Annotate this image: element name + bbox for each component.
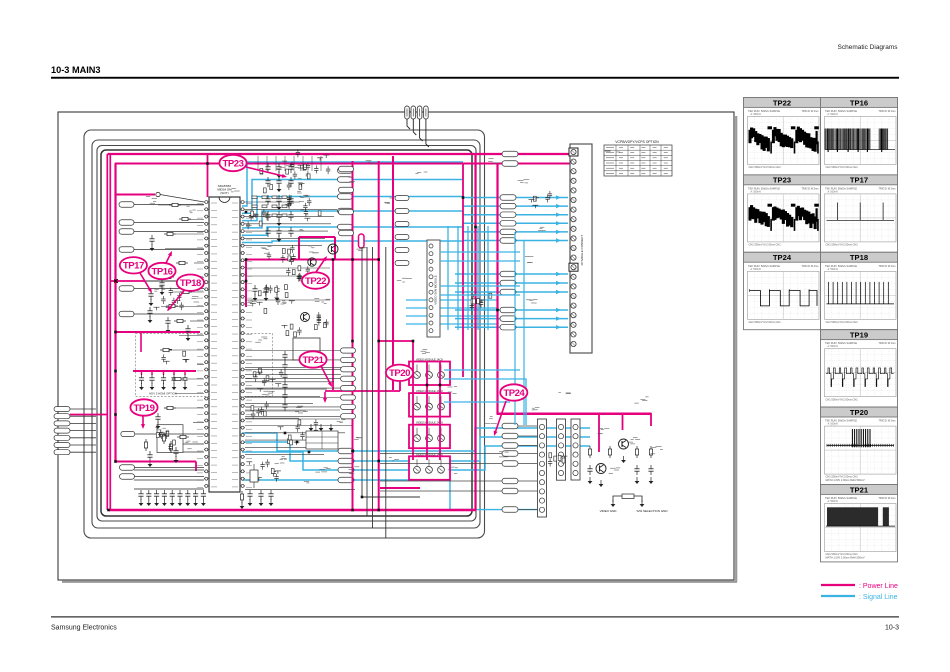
signal pill xyxy=(500,307,516,313)
ground xyxy=(170,499,175,506)
signal wire weave extra xyxy=(440,294,520,296)
input pill P1 xyxy=(54,407,70,412)
power stub to outside pill xyxy=(70,414,108,416)
power bus Q-row xyxy=(497,413,652,416)
input label pill 2 xyxy=(119,220,134,226)
ground xyxy=(162,499,167,506)
signal wire RGB 4 xyxy=(463,222,568,224)
power bus vertical 8V xyxy=(378,161,380,510)
pill YP3 xyxy=(341,367,356,372)
wire xyxy=(245,299,330,301)
callout arrow TP22 xyxy=(316,256,327,272)
ground xyxy=(635,477,640,484)
capacitor C260 xyxy=(138,490,143,500)
IC U201 pins left xyxy=(204,201,209,488)
wire L202 run xyxy=(245,489,355,491)
wire from fuse 2 xyxy=(413,119,416,135)
capacitor C2339 xyxy=(276,211,281,221)
signal pill xyxy=(500,324,516,330)
signal pill xyxy=(395,235,409,240)
IC U201 pins right xyxy=(240,201,245,488)
input label pill 3 xyxy=(119,229,134,235)
signal pill Y5 xyxy=(338,224,353,230)
wire drops TP23 xyxy=(258,156,321,171)
power branch TP22 top xyxy=(299,236,335,238)
power vertical x393 xyxy=(392,156,394,390)
capacitor C2331 xyxy=(288,211,293,221)
footer rule xyxy=(51,616,899,617)
capacitor C330 xyxy=(139,374,144,384)
wire mute xyxy=(135,433,204,435)
connector CN853 xyxy=(571,419,580,480)
wire loop network TP19 xyxy=(157,425,183,453)
signal wire luma 1 xyxy=(242,162,463,206)
capacitor C392 xyxy=(147,451,152,461)
svg-text:TP18: TP18 xyxy=(180,278,202,289)
signal wire jack out 1 xyxy=(444,369,520,371)
test point TP20 xyxy=(386,365,413,381)
wire xyxy=(70,451,96,453)
capacitor C2348 xyxy=(265,227,270,237)
wire vertical C xyxy=(372,247,374,528)
svg-text:VIDEO MODULE JACK: VIDEO MODULE JACK xyxy=(416,358,444,362)
wire vertical D xyxy=(385,247,387,538)
CRT signal pill xyxy=(502,451,518,457)
fuse pill 2 xyxy=(411,106,416,119)
capacitor C25x xyxy=(263,285,268,295)
wire xyxy=(246,275,300,277)
signal wire xyxy=(455,309,568,311)
input label pill 5 xyxy=(119,286,134,292)
ground xyxy=(269,499,274,506)
callout arrow TP23 xyxy=(246,167,287,178)
wire node 281 xyxy=(116,280,204,282)
ground xyxy=(277,185,282,192)
power stub Q2 xyxy=(622,414,624,430)
signal wire vertical xyxy=(447,226,449,330)
ground xyxy=(649,477,654,484)
ground xyxy=(640,500,645,507)
RC cluster right top xyxy=(529,191,553,208)
ground xyxy=(178,499,183,506)
ground xyxy=(599,480,604,487)
transistor Q204 xyxy=(308,258,316,266)
input pill P6 xyxy=(54,443,70,448)
signal wire RGB 1 xyxy=(463,197,568,199)
transistor Q851 xyxy=(619,439,629,449)
svg-text:TRIG’D M 2ms: TRIG’D M 2ms xyxy=(878,264,896,268)
RC cluster weave xyxy=(470,293,492,310)
svg-text:TP21: TP21 xyxy=(303,355,325,366)
wire xyxy=(183,443,204,445)
RC cluster x2 xyxy=(286,266,310,282)
power pill xyxy=(502,161,518,167)
resistor grid R241-R249 xyxy=(252,196,287,217)
resistor cluster R3xx xyxy=(154,288,184,311)
capacitor C2311 xyxy=(288,177,293,187)
ferrite bead L301 xyxy=(156,192,160,196)
ground xyxy=(149,299,154,306)
svg-text:CH1 500mV M 2.00ms CH1: CH1 500mV M 2.00ms CH1 xyxy=(826,320,859,324)
wire xyxy=(134,313,204,315)
callout arrow TP19 xyxy=(141,416,145,429)
capacitor C333 xyxy=(171,374,176,384)
signal wire vertical xyxy=(487,226,489,330)
power drop TP22 b xyxy=(334,237,336,260)
inductor L852 network xyxy=(613,496,642,502)
input pill P5 xyxy=(54,435,70,440)
wire YP xyxy=(245,359,340,361)
wire xyxy=(70,437,96,439)
resistor R308 xyxy=(160,348,172,351)
svg-text:MATH 1.00V 2.00ms RefA 500: MATH 1.00V 2.00ms RefA 500mV xyxy=(826,478,865,482)
junction dots xyxy=(107,162,499,511)
signal pill xyxy=(339,230,354,236)
wire xyxy=(135,467,205,469)
waveform cell TP18 xyxy=(821,252,898,329)
capacitor C24x xyxy=(282,351,287,361)
wire from fuse 1 xyxy=(407,119,410,129)
svg-text:TRIG’D M 2ms: TRIG’D M 2ms xyxy=(878,496,896,500)
RC cluster mid xyxy=(253,368,283,392)
cap row top xyxy=(296,149,331,174)
wire xyxy=(70,444,96,446)
resistor R303 xyxy=(176,261,188,264)
signal wire SND OUT xyxy=(242,480,540,510)
signal wire RGB 3 xyxy=(463,214,568,216)
dashed box VDP/VDPE OPTION xyxy=(136,334,273,397)
ground xyxy=(156,422,161,429)
legend power line xyxy=(821,584,855,586)
svg-text:TRIG’D M 2ms: TRIG’D M 2ms xyxy=(878,341,896,345)
signal pill Y2 xyxy=(338,177,353,183)
ground xyxy=(277,171,282,178)
wire from fuse 3 xyxy=(420,119,423,141)
power bus left vertical inner xyxy=(114,164,116,462)
wire xyxy=(134,288,204,290)
connector CN852 xyxy=(557,419,566,480)
waveform cell TP19 xyxy=(821,330,898,407)
capacitor C332 xyxy=(161,374,166,384)
signal pill R4 xyxy=(500,221,516,227)
capacitor C25x xyxy=(274,285,279,295)
resistor R3011 xyxy=(177,435,189,438)
IC right pin wires mid xyxy=(245,360,352,455)
ground xyxy=(166,326,171,333)
ground xyxy=(146,499,151,506)
ground xyxy=(172,383,177,390)
output pill O2 xyxy=(338,458,354,464)
wire xyxy=(70,408,96,410)
power bus top 2 xyxy=(115,163,571,165)
label xyxy=(301,210,309,215)
label text xyxy=(275,161,292,169)
CRT signal pill xyxy=(502,423,518,429)
svg-text:10-3: 10-3 xyxy=(885,625,899,632)
svg-text:TP19: TP19 xyxy=(850,331,868,340)
output pill O4 xyxy=(338,477,354,483)
waveform cell TP22 xyxy=(744,98,821,175)
wire YP xyxy=(245,406,340,408)
capacitor C21x xyxy=(268,490,273,500)
signal wire luma 2 xyxy=(242,180,463,214)
signal wire RGB 2 xyxy=(463,205,568,207)
capacitor C2328 xyxy=(265,195,270,205)
svg-text:CH1 500mV M 2.00ms CH1: CH1 500mV M 2.00ms CH1 xyxy=(826,243,859,247)
capacitor xyxy=(155,413,160,423)
wire from fuse 4 xyxy=(426,119,429,147)
label text xyxy=(356,247,366,250)
RC cluster x4 xyxy=(251,401,269,419)
signal wire B OUT xyxy=(242,446,590,470)
signal pill xyxy=(339,187,354,193)
label text xyxy=(526,299,538,303)
CRT signal pill xyxy=(502,488,518,494)
input pill P7 xyxy=(54,450,70,455)
waveform cell TP24 xyxy=(744,252,821,329)
label text xyxy=(354,437,363,439)
IC pin labels xyxy=(197,204,252,488)
svg-text:HDV 5 HDMI OPTION: HDV 5 HDMI OPTION xyxy=(149,392,177,396)
signal wire xyxy=(455,318,568,320)
wire xyxy=(70,422,96,424)
AV jack module J3 xyxy=(409,421,450,449)
svg-text:Schematic Diagrams: Schematic Diagrams xyxy=(838,44,899,51)
capacitor C2349 xyxy=(276,227,281,237)
RC near Q852 xyxy=(548,453,568,467)
test point TP23 xyxy=(219,155,246,171)
signal wire weave xyxy=(406,299,498,301)
power wire jack feed xyxy=(379,340,412,342)
pill YP7 xyxy=(341,404,356,409)
svg-text:TRIG’D M 2ms: TRIG’D M 2ms xyxy=(801,109,819,113)
signal pill xyxy=(500,289,516,295)
capacitor C24x xyxy=(282,371,287,381)
power bus vertical 3.3V xyxy=(352,161,354,510)
power bus left vertical b xyxy=(109,154,111,510)
signal pill Y4 xyxy=(338,208,353,214)
label text xyxy=(525,256,534,262)
option table cell text xyxy=(606,148,668,174)
svg-text:TP17: TP17 xyxy=(850,176,868,185)
signal wire luma 3 xyxy=(242,197,463,221)
power drop option box xyxy=(140,332,142,352)
wire xyxy=(518,445,537,447)
label text xyxy=(532,408,540,410)
input label pill 4 xyxy=(119,247,134,253)
wire xyxy=(134,469,204,471)
wire to CN xyxy=(380,453,502,455)
svg-text:CH1 500mV M 2.00ms CH1: CH1 500mV M 2.00ms CH1 xyxy=(826,165,859,169)
svg-text:Samsung Electronics: Samsung Electronics xyxy=(51,625,117,632)
svg-text:TRIG’D M 2ms: TRIG’D M 2ms xyxy=(801,186,819,190)
signal pill R1 xyxy=(500,195,516,201)
signal wire xyxy=(455,282,568,284)
RC cluster x5 xyxy=(282,324,302,337)
signal wire xyxy=(455,291,568,293)
signal wire weave xyxy=(406,323,498,325)
label text xyxy=(485,417,497,424)
wire xyxy=(183,451,204,453)
capacitor C24x xyxy=(282,361,287,371)
power table block xyxy=(306,431,338,449)
wire YP xyxy=(245,368,340,370)
transistor Q203 xyxy=(301,313,310,322)
svg-text:TP24: TP24 xyxy=(773,253,792,262)
ground xyxy=(248,499,253,506)
signal wire weave xyxy=(406,307,498,309)
svg-text:VIDEO GND: VIDEO GND xyxy=(600,509,618,513)
resistor R304 xyxy=(162,275,174,278)
ground xyxy=(275,294,280,301)
capacitor C268 xyxy=(201,490,206,500)
AV pill 2 xyxy=(120,474,135,480)
svg-text:S/W SELECTION GND: S/W SELECTION GND xyxy=(636,509,668,513)
AV jack module J4 xyxy=(409,452,450,480)
wire xyxy=(70,415,96,417)
ground xyxy=(150,244,155,251)
label text xyxy=(448,387,458,394)
wire YP xyxy=(245,397,340,399)
capacitor C24x xyxy=(282,391,287,401)
svg-text:VCPB/VDPY/VCPS OPTION: VCPB/VDPY/VCPS OPTION xyxy=(615,140,659,144)
callout arrow TP24 xyxy=(494,401,506,436)
svg-text:TP20: TP20 xyxy=(850,408,868,417)
svg-text:(SOT): (SOT) xyxy=(220,191,228,195)
resistor bias xyxy=(635,446,638,458)
power drop at 196 xyxy=(195,462,197,472)
ground xyxy=(319,424,324,431)
label text xyxy=(295,406,308,413)
signal wire down 2 xyxy=(523,240,525,425)
ground xyxy=(240,502,245,509)
ground xyxy=(160,288,165,295)
output pill O3 xyxy=(338,467,354,473)
power branch drop xyxy=(245,259,247,307)
wire xyxy=(246,267,330,269)
ground xyxy=(150,383,155,390)
test point TP24 xyxy=(500,384,527,400)
ground xyxy=(148,460,153,467)
pill YP4 xyxy=(341,376,356,381)
label text xyxy=(315,468,330,472)
test point TP16 xyxy=(148,263,175,279)
IC U201 pin name ticks xyxy=(211,203,238,487)
signal pill xyxy=(395,261,409,266)
wire xyxy=(134,222,204,224)
wire loop frame 4 xyxy=(101,150,472,516)
label text xyxy=(262,391,275,395)
wire xyxy=(245,409,340,411)
wire xyxy=(518,463,537,465)
signal arrows xyxy=(556,195,561,329)
schematic outer border xyxy=(58,112,734,580)
resistor R302 xyxy=(164,232,176,235)
input pill P4 xyxy=(54,428,70,433)
power bus top B+ xyxy=(108,153,572,155)
power stub Q1 xyxy=(598,414,600,452)
power jumper pill xyxy=(359,234,365,248)
label text xyxy=(275,456,287,463)
signal pill xyxy=(339,166,354,172)
label L202 xyxy=(304,482,310,483)
signal wire R OUT xyxy=(242,428,590,451)
label text xyxy=(538,227,546,230)
label text xyxy=(609,468,621,474)
capacitor bank C201-C214 xyxy=(260,162,310,193)
CRT signal pill xyxy=(502,443,518,449)
signal pill xyxy=(395,222,409,227)
RC cluster left xyxy=(156,430,175,452)
wire loop frame 1 xyxy=(84,130,485,538)
label text xyxy=(303,353,311,357)
svg-text:TRIG’D M 2ms: TRIG’D M 2ms xyxy=(878,419,896,423)
waveform cell TP23 xyxy=(744,175,821,252)
test point TP18 xyxy=(177,275,204,291)
ground xyxy=(139,383,144,390)
fuse pill 4 xyxy=(424,106,429,119)
label text xyxy=(384,198,393,203)
fuse pill 3 xyxy=(417,106,422,119)
ground xyxy=(277,203,282,210)
power pill xyxy=(502,151,518,157)
signal wire vertical xyxy=(467,226,469,330)
capacitor C264 xyxy=(170,490,175,500)
resistor bias xyxy=(649,446,652,458)
ground xyxy=(588,477,593,484)
capacitor filter xyxy=(587,465,592,475)
wire xyxy=(518,509,537,511)
capacitor C306 xyxy=(165,317,170,327)
power bus left vertical xyxy=(106,154,108,510)
wire corner A xyxy=(362,496,420,498)
svg-text:TP23: TP23 xyxy=(773,176,791,185)
transistor Q852 xyxy=(596,464,606,474)
power branch y194 xyxy=(115,194,155,196)
svg-text:TP17: TP17 xyxy=(123,261,144,272)
waveform cell TP21 xyxy=(821,485,898,562)
label text xyxy=(337,420,346,423)
wire xyxy=(518,490,537,492)
svg-text:TP18: TP18 xyxy=(850,253,868,262)
ground xyxy=(148,316,153,323)
power wire TP20 row xyxy=(325,390,400,392)
callout arrow TP16 xyxy=(166,251,172,263)
wire YP xyxy=(245,350,340,352)
pill YP6 xyxy=(341,395,356,400)
legend signal line xyxy=(821,595,855,597)
svg-text:TRIG’D M 2ms: TRIG’D M 2ms xyxy=(801,264,819,268)
waveform cell TP17 xyxy=(821,175,898,252)
signal pill xyxy=(500,271,516,277)
label text xyxy=(415,172,427,174)
capacitor C21x xyxy=(247,490,252,500)
power drop cap 0 xyxy=(141,371,143,375)
label text xyxy=(598,429,610,434)
crystal X201 xyxy=(250,470,258,482)
wire xyxy=(134,249,204,251)
capacitor C265 xyxy=(177,490,182,500)
wire loop frame 2 xyxy=(92,140,480,528)
connector S-VIDEO S/W MODULE xyxy=(427,240,440,337)
power drop cap 4 xyxy=(184,371,186,375)
power wire jack chain 3 xyxy=(439,361,441,460)
capacitor C24x xyxy=(282,401,287,411)
label text xyxy=(154,286,165,291)
signal wire luma 6 xyxy=(242,241,463,243)
capacitor C2309 xyxy=(276,163,281,173)
label xyxy=(295,166,307,168)
